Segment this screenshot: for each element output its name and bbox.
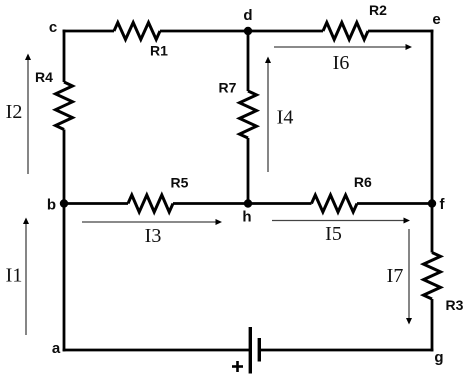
svg-text:I3: I3 xyxy=(145,225,162,247)
svg-text:I6: I6 xyxy=(333,52,350,74)
svg-text:I1: I1 xyxy=(6,265,23,287)
node b label xyxy=(47,197,56,214)
svg-text:e: e xyxy=(432,11,440,28)
resistor R4 value label xyxy=(35,69,53,85)
current arrow I4 xyxy=(265,57,271,173)
wire d-R2 xyxy=(248,30,323,33)
wire h-R6 xyxy=(248,202,312,205)
resistor R3 xyxy=(424,253,441,300)
resistor R7 value label xyxy=(219,80,237,96)
wire R3-g xyxy=(431,299,434,351)
wire R6-f xyxy=(357,202,432,205)
svg-text:b: b xyxy=(47,197,56,214)
svg-text:I2: I2 xyxy=(6,101,23,123)
node g label xyxy=(434,349,443,366)
resistor R5 xyxy=(128,195,173,212)
svg-text:h: h xyxy=(242,209,251,226)
current label I1 xyxy=(6,265,23,287)
current label I3 xyxy=(145,225,162,247)
svg-text:I4: I4 xyxy=(277,107,294,129)
node a label xyxy=(52,340,61,357)
resistor R3 value label xyxy=(446,297,464,313)
wire R4-b xyxy=(63,130,66,204)
node e label xyxy=(432,11,440,28)
current label I2 xyxy=(6,101,23,123)
node h label xyxy=(242,209,251,226)
node f label xyxy=(440,196,446,213)
current label I7 xyxy=(387,265,404,287)
resistor R4 xyxy=(56,82,73,130)
wire c-R4 left vertical xyxy=(63,30,66,82)
svg-text:I7: I7 xyxy=(387,265,404,287)
resistor R5 value label xyxy=(171,175,189,191)
current label I4 xyxy=(277,107,294,129)
svg-text:R1: R1 xyxy=(150,43,168,59)
resistor R1 value label xyxy=(150,43,168,59)
wire a-battery bottom left xyxy=(63,349,249,352)
current arrow I2 xyxy=(25,54,31,175)
node c label xyxy=(49,19,57,36)
svg-text:g: g xyxy=(434,349,443,366)
svg-text:R4: R4 xyxy=(35,69,53,85)
battery plus sign xyxy=(232,361,243,372)
wire R5-h xyxy=(173,202,248,205)
svg-text:c: c xyxy=(49,19,57,36)
resistor R1 xyxy=(114,23,160,40)
svg-text:R2: R2 xyxy=(369,2,387,18)
current arrow I5 xyxy=(272,218,410,224)
wire b-a xyxy=(63,204,66,352)
wire battery-g bottom right xyxy=(259,349,433,352)
svg-text:R7: R7 xyxy=(219,80,237,96)
svg-text:R6: R6 xyxy=(354,174,372,190)
current arrow I3 xyxy=(82,219,222,225)
wire R1-d xyxy=(160,30,248,33)
wire R7-h xyxy=(247,138,250,204)
svg-text:f: f xyxy=(440,196,446,213)
resistor R7 xyxy=(240,91,257,138)
resistor R6 value label xyxy=(354,174,372,190)
node f junction dot xyxy=(428,199,436,207)
wire e-f right vertical xyxy=(431,30,434,204)
resistor R2 xyxy=(323,23,368,40)
svg-text:a: a xyxy=(52,340,61,357)
current arrow I1 xyxy=(23,218,29,336)
node h junction dot xyxy=(244,199,252,207)
wire R2-e xyxy=(368,30,433,33)
wire b-R5 middle horizontal xyxy=(64,202,128,205)
node b junction dot xyxy=(60,199,68,207)
wire c-R1 top-left horizontal xyxy=(63,30,114,33)
svg-text:R5: R5 xyxy=(171,175,189,191)
current arrow I7 xyxy=(406,229,412,325)
svg-text:d: d xyxy=(243,7,252,24)
current label I6 xyxy=(333,52,350,74)
battery V1 positive plate xyxy=(249,327,252,374)
node d label xyxy=(243,7,252,24)
svg-text:R3: R3 xyxy=(446,297,464,313)
node d junction dot xyxy=(244,27,252,35)
current label I5 xyxy=(325,223,342,245)
resistor R2 value label xyxy=(369,2,387,18)
current arrow I6 xyxy=(274,44,412,50)
wire d-R7 middle vertical xyxy=(247,31,250,91)
svg-text:I5: I5 xyxy=(325,223,342,245)
wire f-R3 xyxy=(431,204,434,253)
resistor R6 xyxy=(312,195,358,212)
battery V1 negative plate xyxy=(258,338,261,362)
